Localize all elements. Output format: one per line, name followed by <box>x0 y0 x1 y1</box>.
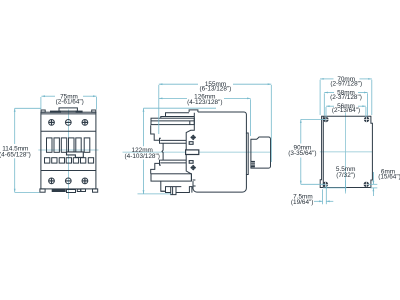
block inner vertical <box>189 121 191 125</box>
pole slot 5 <box>76 138 81 152</box>
dim 70mm extension lines <box>319 80 321 115</box>
dim 6mm <box>372 172 374 184</box>
top label plate <box>59 108 77 111</box>
plate screw top-right <box>364 117 369 122</box>
top terminal screw 1 <box>49 120 55 126</box>
aux square 7 <box>88 158 93 163</box>
dim 56mm extension lines <box>325 107 327 117</box>
top terminal screw 3 <box>82 120 88 126</box>
coil screw symbol top <box>191 135 196 140</box>
svg-text:(2-13/64"): (2-13/64") <box>332 107 360 114</box>
bottom terminal screw 1 <box>49 178 55 184</box>
lower wire tab <box>160 160 186 163</box>
front body outline <box>41 112 96 189</box>
top terminal screw 2 <box>65 120 71 126</box>
front view centerline vertical <box>67 110 69 200</box>
upper tab left bar <box>160 138 161 143</box>
bottom terminal block <box>151 174 191 181</box>
plate screw bottom-right <box>364 182 369 187</box>
dim 75mm extension lines <box>40 97 42 109</box>
lower left profile step <box>151 163 160 173</box>
svg-text:(4-65/128"): (4-65/128") <box>0 151 31 158</box>
dim 58mm extension lines <box>323 93 325 115</box>
coil terminal rect top <box>189 142 193 145</box>
center slot <box>186 150 199 155</box>
pole slot 4 <box>69 138 75 152</box>
plate centerline horizontal <box>320 151 373 153</box>
dim 155mm extension lines <box>158 85 160 134</box>
svg-text:(15/64"): (15/64") <box>378 174 400 181</box>
top terminal block inner line <box>151 120 194 122</box>
aux square 4 <box>66 158 71 163</box>
bottom small clip 1 <box>77 189 80 191</box>
svg-text:(19/64"): (19/64") <box>291 199 314 206</box>
line above bottom terminal row <box>41 170 96 172</box>
dim 56mm line <box>326 105 334 107</box>
front face tick 2 <box>193 185 196 187</box>
plate inner left line <box>322 116 324 187</box>
bottom foot <box>171 187 176 195</box>
dim 90mm extension lines <box>301 118 326 120</box>
bottom step notch <box>176 187 192 193</box>
pole slot 2 <box>54 138 59 152</box>
svg-text:(7/32"): (7/32") <box>336 172 355 179</box>
front face line <box>186 113 194 181</box>
coil knob outline <box>251 137 271 168</box>
moving contact carrier <box>67 152 84 158</box>
left mid edge <box>162 143 163 160</box>
top left tab <box>41 110 45 112</box>
dim 70mm line <box>320 78 333 80</box>
dim 75mm line <box>41 95 55 97</box>
side body outline <box>193 112 248 192</box>
top block upper line <box>166 116 195 118</box>
top strip line <box>41 113 96 115</box>
aux square 3 <box>59 158 64 163</box>
pole slot 1 <box>47 138 53 152</box>
plate screw top-left <box>323 117 328 122</box>
dim 58mm line <box>324 92 334 94</box>
bottom left foot <box>40 189 45 192</box>
dim 126mm line <box>159 97 187 99</box>
aux square 1 <box>45 158 50 163</box>
dim 114.5mm line <box>14 108 16 144</box>
upper left profile step <box>151 125 160 140</box>
top step line <box>161 113 189 119</box>
aux square 2 <box>52 158 57 163</box>
plate centerline vertical <box>345 112 347 193</box>
pole slot 6 <box>84 138 90 152</box>
knob terminal dark block <box>251 161 255 167</box>
dim 114.5mm extension lines <box>15 107 41 109</box>
side view centerline horizontal <box>123 151 272 153</box>
front view centerline horizontal <box>38 149 98 151</box>
plate outline <box>320 116 372 187</box>
lower tab left bar <box>160 160 161 165</box>
svg-text:(2-37/128"): (2-37/128") <box>330 94 362 101</box>
svg-text:(3-35/64"): (3-35/64") <box>288 150 316 157</box>
svg-text:(2-97/128"): (2-97/128") <box>330 80 362 87</box>
dim 122mm line <box>143 108 145 146</box>
dim 6mm extension lines <box>323 187 347 189</box>
coil terminal rect bottom <box>189 161 193 164</box>
coil screw symbol bottom <box>191 165 196 170</box>
pole slot 3 <box>61 138 66 152</box>
bottom center hook <box>67 190 76 193</box>
bottom right foot <box>93 189 98 192</box>
top right tab <box>92 110 96 112</box>
front face tick 1 <box>193 179 196 181</box>
dim 122mm extension lines <box>144 107 217 109</box>
dim 7.5mm <box>322 189 324 204</box>
svg-text:(2-61/64"): (2-61/64") <box>56 99 84 106</box>
top terminal block <box>151 118 194 124</box>
plate screw bottom-left <box>323 182 328 187</box>
dim 5.5mm tick mark <box>345 180 347 191</box>
top raised tab <box>189 110 198 112</box>
aux square 6 <box>81 158 86 163</box>
upper wire tab <box>160 140 186 143</box>
aux square 5 <box>73 158 78 163</box>
svg-text:(6-13/128"): (6-13/128") <box>200 86 232 93</box>
label plate markings <box>50 111 61 113</box>
bottom foot inner line <box>172 187 174 195</box>
side body inner right edge <box>245 133 247 175</box>
bottom terminal screw 3 <box>82 178 88 184</box>
dim 155mm line <box>159 83 198 85</box>
knob block striations <box>251 162 255 164</box>
bottom left base line <box>161 191 171 192</box>
dim 90mm line <box>300 119 302 143</box>
bottom block lower structure <box>161 181 182 191</box>
bottom small clip 2 <box>81 189 86 192</box>
line under top terminal row <box>41 130 96 132</box>
svg-text:(4-123/128"): (4-123/128") <box>187 99 222 106</box>
dim 126mm extension line right <box>250 99 252 136</box>
bottom terminal screw 2 <box>65 178 71 184</box>
bottom mounting detail dark block <box>52 189 66 192</box>
svg-text:(4-103/128"): (4-103/128") <box>125 153 160 160</box>
